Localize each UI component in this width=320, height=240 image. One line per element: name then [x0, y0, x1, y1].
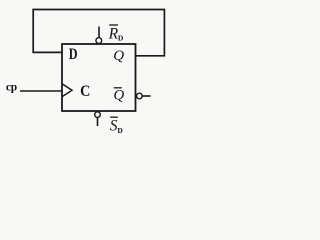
svg-text:C: C	[80, 83, 90, 100]
wire: S_D stub	[97, 117, 99, 126]
label S_D with overbar and subscript	[110, 117, 124, 135]
svg-text:Q: Q	[113, 88, 124, 104]
inversion bubble: R_D input	[96, 38, 102, 44]
pin label Q-bar	[113, 88, 124, 104]
inversion bubble: Q-bar output	[137, 93, 143, 99]
wire: cp input	[20, 90, 62, 92]
svg-text:cp: cp	[6, 81, 17, 93]
svg-text:D: D	[117, 126, 123, 135]
svg-text:Q: Q	[113, 48, 124, 64]
pin label D	[69, 46, 78, 63]
wire: Q-bar output stub	[142, 95, 150, 97]
wire: feedback loop Q output to D input	[33, 10, 164, 56]
inversion bubble: S_D input	[95, 112, 101, 118]
svg-text:D: D	[118, 33, 124, 42]
clock input triangle	[62, 84, 72, 97]
label R_D with overbar and subscript	[108, 25, 124, 43]
wire: R_D stub	[98, 27, 100, 38]
flip-flop U1 body	[62, 44, 136, 111]
pin label C	[80, 83, 90, 100]
svg-text:D: D	[69, 46, 78, 63]
pin label Q	[113, 48, 124, 64]
label cp	[6, 81, 17, 93]
